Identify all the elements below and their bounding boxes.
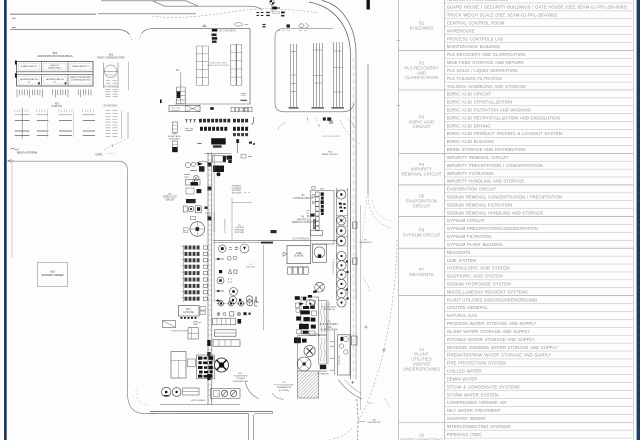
svg-text:PLS TAILINGS FILTRATION: PLS TAILINGS FILTRATION <box>447 76 502 81</box>
svg-text:IMPURITY PRECIPITATION / CONCE: IMPURITY PRECIPITATION / CONCENTRATION <box>447 163 543 168</box>
svg-text:BORIC ACID: BORIC ACID <box>168 135 181 138</box>
svg-text:MINE FEED STORAGE AND RETURN: MINE FEED STORAGE AND RETURN <box>447 60 524 65</box>
tailings filtration strip north <box>319 301 327 336</box>
gypsum rack boxes <box>316 192 320 231</box>
lot exit curves <box>278 123 286 131</box>
arrow west on fence line <box>8 160 15 163</box>
svg-text:GYPSUM CIRCUIT: GYPSUM CIRCUIT <box>293 198 314 200</box>
tank column marks cluster <box>339 203 346 212</box>
svg-text:T: T <box>249 301 251 305</box>
svg-text:CIRCUIT: CIRCUIT <box>165 199 175 201</box>
svg-text:SLAKER: SLAKER <box>294 255 304 258</box>
svg-text:AND: AND <box>327 326 332 329</box>
EV parking stalls upper <box>105 90 118 97</box>
svg-text:IMPURITY FILTRATION: IMPURITY FILTRATION <box>447 171 494 176</box>
road station marks west <box>241 94 247 96</box>
svg-text:CHILLED WATER: CHILLED WATER <box>447 369 482 374</box>
svg-text:ADMINISTRATION: ADMINISTRATION <box>46 78 64 81</box>
construction trailer strip A <box>196 46 198 85</box>
svg-text:IMPURITY HANDLING AND STORAGE: IMPURITY HANDLING AND STORAGE <box>447 179 525 184</box>
svg-text:REAGENTS: REAGENTS <box>447 250 471 255</box>
svg-text:SANITARY SEWER: SANITARY SEWER <box>447 416 486 421</box>
svg-text:B4 CONCRETE: B4 CONCRETE <box>220 30 237 32</box>
svg-text:B20 PLATFORM: B20 PLATFORM <box>17 151 38 155</box>
long building A <box>215 330 237 336</box>
east small marks <box>249 142 252 144</box>
svg-text:PLS SOLID / LIQUID SEPARATION: PLS SOLID / LIQUID SEPARATION <box>447 68 518 73</box>
reagent row 3 <box>219 270 222 273</box>
label B05 block <box>212 29 218 32</box>
future hatched area <box>298 371 319 398</box>
piperack center vertical <box>207 153 209 406</box>
svg-text:WAREHOUSE: WAREHOUSE <box>447 28 475 33</box>
sheet border left navy bar <box>4 0 7 440</box>
svg-text:(FUTURE): (FUTURE) <box>232 193 242 195</box>
main road south segment <box>355 300 357 380</box>
svg-text:BUILDINGS: BUILDINGS <box>410 25 434 30</box>
agitated tank R-2 <box>240 244 249 253</box>
administration building complex B50 <box>17 62 94 87</box>
module hatch row 3 <box>233 133 248 136</box>
road pad B <box>352 258 357 264</box>
power distribution dense cluster <box>198 356 213 377</box>
small equipment row <box>217 313 220 316</box>
filter press label block <box>320 365 326 369</box>
table right border <box>633 0 635 440</box>
svg-text:LS: LS <box>176 69 179 72</box>
substation row <box>213 318 236 325</box>
svg-text:(MESS HALL): (MESS HALL) <box>48 66 61 69</box>
road plant access horizontal <box>175 103 250 105</box>
gas line dashed <box>357 399 358 440</box>
lot entry marks <box>263 24 266 25</box>
flag symbol B <box>272 6 278 9</box>
gypsum small circles <box>312 195 315 198</box>
road bottom horizontal <box>150 410 273 412</box>
svg-text:BORIC ACID CIRCUIT: BORIC ACID CIRCUIT <box>447 92 492 97</box>
parking lot entrance ticks <box>277 30 307 32</box>
svg-text:DISTRIBUTION: DISTRIBUTION <box>233 381 249 383</box>
svg-text:SODIUM REMOVAL FILTRATION: SODIUM REMOVAL FILTRATION <box>447 202 513 207</box>
lime tanks <box>315 282 325 292</box>
impurity striped rod <box>313 219 315 229</box>
road junction right curve <box>142 29 152 34</box>
LS line <box>180 72 182 87</box>
svg-text:BORIC ACID FILTRATION AND WASH: BORIC ACID FILTRATION AND WASHING <box>447 107 532 112</box>
svg-text:1 2: 1 2 <box>215 24 219 26</box>
svg-text:BRINE STORAGE AND DISTRIBUTION: BRINE STORAGE AND DISTRIBUTION <box>447 147 525 152</box>
boric south marks <box>184 175 190 178</box>
parking grid rows <box>15 121 95 136</box>
hvac symbols row <box>218 301 223 306</box>
svg-text:GYPSUM CIRCUIT: GYPSUM CIRCUIT <box>447 218 485 223</box>
svg-text:OILY WATER TREATMENT: OILY WATER TREATMENT <box>447 408 501 413</box>
module hatch row 1 <box>199 119 230 123</box>
svg-text:(FUTURE): (FUTURE) <box>235 232 245 234</box>
svg-text:TAILINGS HANDELING AND STORAGE: TAILINGS HANDELING AND STORAGE <box>447 84 526 89</box>
mcc north box <box>227 156 233 160</box>
module row squares <box>231 107 252 111</box>
transformer bay west <box>163 321 176 328</box>
svg-text:EVAPORATION CIRCUIT: EVAPORATION CIRCUIT <box>447 187 497 192</box>
svg-text:NATURAL GAS: NATURAL GAS <box>447 313 478 318</box>
fence rounded enclosure <box>12 161 156 413</box>
piperack west dark bar <box>177 92 180 99</box>
module rack left ticks <box>182 247 185 298</box>
long building B <box>213 340 240 346</box>
parking strip C <box>334 42 343 107</box>
tall building east annex <box>352 336 358 345</box>
svg-text:COMMUNICATIONS: COMMUNICATIONS <box>71 78 91 81</box>
rack dark segments north <box>207 163 211 167</box>
module rack rows south <box>185 246 200 250</box>
narrow building strip lower <box>172 141 177 152</box>
lime building <box>287 246 311 264</box>
road top ramp parallelogram <box>101 1 262 10</box>
svg-text:ADMINISTRATION BUILDINGS: ADMINISTRATION BUILDINGS <box>37 55 73 58</box>
svg-text:LIME PAD: LIME PAD <box>246 265 256 268</box>
svg-text:COMPRESSED AIR/MINE AIR: COMPRESSED AIR/MINE AIR <box>447 400 507 405</box>
parking stall ticks top <box>15 110 93 113</box>
east contour extension <box>362 196 368 248</box>
lime dosing squares <box>287 266 308 268</box>
road top horizontal upper line <box>10 13 196 15</box>
svg-text:SEPARATION: SEPARATION <box>277 386 291 389</box>
svg-text:PLANT UTILITIES (ABOVE/UNDERGR: PLANT UTILITIES (ABOVE/UNDERGROUND) <box>447 297 538 302</box>
svg-text:UTILITES GENERAL: UTILITES GENERAL <box>447 305 489 310</box>
road curve to main north-south road <box>309 2 351 380</box>
se small marks <box>351 381 354 384</box>
L building <box>171 352 186 379</box>
svg-text:REAGENTS: REAGENTS <box>409 272 433 277</box>
svg-text:HYDROCLORIC ACID SYSTEM: HYDROCLORIC ACID SYSTEM <box>447 266 510 271</box>
svg-text:TRUCK WEIGH SCALE (SEE SEAM-G1: TRUCK WEIGH SCALE (SEE SEAM-G1-PPL-250-0… <box>447 13 558 18</box>
symbol near option <box>329 120 332 123</box>
svg-text:GATE: GATE <box>96 152 103 156</box>
table group boundary lines <box>399 50 634 422</box>
svg-text:DEMIN WATER: DEMIN WATER <box>447 376 478 381</box>
svg-text:LGS PIPERACK: LGS PIPERACK <box>332 258 335 274</box>
road LGS piperack horizontal <box>213 240 336 242</box>
svg-text:OPTION CONCEPT: OPTION CONCEPT <box>322 136 341 138</box>
svg-text:PLS RECOVERY AND CLARIFICATION: PLS RECOVERY AND CLARIFICATION <box>447 52 526 57</box>
reagent row 4 <box>217 277 224 284</box>
reagent area west line <box>213 154 215 302</box>
module hatch row 2b <box>233 127 248 131</box>
svg-text:CLARIFICATION: CLARIFICATION <box>320 328 338 331</box>
impurity dark marks <box>311 214 315 217</box>
reagent row 6 <box>216 300 223 302</box>
clarifier B <box>297 357 311 371</box>
svg-text:BORIC ACID PRODUCT PACKING & L: BORIC ACID PRODUCT PACKING & LOADOUT SYS… <box>447 131 563 136</box>
road east dashed contour <box>368 196 391 228</box>
svg-text:FILTRATION: FILTRATION <box>317 373 329 376</box>
topography dashed contour top <box>152 9 318 18</box>
top survey dash marks <box>257 12 260 13</box>
svg-text:STEAM & CONDENSATE SYSTEMS: STEAM & CONDENSATE SYSTEMS <box>447 384 520 389</box>
tailings filter strip <box>319 335 327 364</box>
svg-text:GUARD FACILITY: GUARD FACILITY <box>20 65 38 68</box>
tank farm column boundary <box>335 188 337 300</box>
parking grid cross aisle <box>21 108 23 139</box>
svg-text:SODIUM REMOVAL HANDLING AND ST: SODIUM REMOVAL HANDLING AND STORAGE <box>447 210 544 215</box>
svg-text:REVERSE OSMOSIS WATER STORAGE: REVERSE OSMOSIS WATER STORAGE AND SUPPLY <box>447 345 558 350</box>
EV parking stalls lower <box>106 111 118 137</box>
svg-text:BRINE CIRCUIT: BRINE CIRCUIT <box>322 154 339 156</box>
road left horizontal lower line <box>10 30 129 35</box>
clarifier boundary <box>298 336 320 371</box>
svg-text:MAINTENANCE BUILDING: MAINTENANCE BUILDING <box>447 44 501 49</box>
svg-text:E-HOUSE: E-HOUSE <box>183 312 194 314</box>
svg-text:1.1: 1.1 <box>217 394 221 396</box>
svg-text:GYPSUM PLANT BUILDING: GYPSUM PLANT BUILDING <box>447 242 504 247</box>
svg-text:GUARD HOUSE / SECURITY BUILDIN: GUARD HOUSE / SECURITY BUILDINGS / GATE … <box>447 5 628 10</box>
svg-text:INTERCONNECTING SYSTEMS: INTERCONNECTING SYSTEMS <box>447 424 511 429</box>
svg-text:PROCESS CONTROLS LAB: PROCESS CONTROLS LAB <box>447 36 504 41</box>
reagent row 5 <box>216 290 225 292</box>
agitated tank R-1 <box>219 245 226 252</box>
svg-text:R: R <box>318 125 320 128</box>
transformer dark unit <box>215 358 229 372</box>
north module containing box <box>301 297 319 334</box>
svg-text:FILTRATION: FILTRATION <box>323 308 335 311</box>
road survey marks <box>203 25 207 27</box>
svg-text:SULPHURIC ACID SYSTEM: SULPHURIC ACID SYSTEM <box>447 274 503 279</box>
table item texts <box>447 0 628 437</box>
svg-text:PLANT WIDE: PLANT WIDE <box>234 375 248 378</box>
svg-text:BORIC ACID CRYSTALLIZATION: BORIC ACID CRYSTALLIZATION <box>447 100 513 105</box>
boric module box <box>205 152 232 154</box>
rack dark segments <box>207 340 210 346</box>
main parking lot boundary <box>275 29 333 104</box>
sheet border right navy bar <box>637 0 640 440</box>
topography dashed contour mid right <box>340 120 360 144</box>
svg-text:MISCELLANEOUS REAGENT SYSTEMS: MISCELLANEOUS REAGENT SYSTEMS <box>447 289 528 294</box>
svg-text:B08: B08 <box>109 55 114 57</box>
road edge ticks top-left <box>12 17 16 19</box>
road center horizontal <box>151 28 250 30</box>
svg-text:REAGENTS: REAGENTS <box>359 241 372 244</box>
lgs dark segment <box>261 242 273 244</box>
svg-text:GAS METER: GAS METER <box>368 421 381 424</box>
svg-text:(101): (101) <box>368 402 373 404</box>
svg-text:TRAILERS (FUTURE): TRAILERS (FUTURE) <box>207 64 229 67</box>
tall building east <box>338 335 350 375</box>
svg-text:P3A: P3A <box>172 133 177 136</box>
road center dashes <box>352 58 354 378</box>
svg-text:(FUTURE): (FUTURE) <box>279 390 290 392</box>
road pad A <box>352 222 357 228</box>
gypsum area boundary box <box>311 191 335 245</box>
table column divider <box>444 0 446 440</box>
parking stalls below admin <box>17 90 91 98</box>
module marks row 2 left <box>186 129 194 131</box>
svg-text:LGS PIPERACK: LGS PIPERACK <box>224 218 227 233</box>
svg-text:ADMINISTRATION: ADMINISTRATION <box>20 78 38 81</box>
svg-text:ADMINISTRATION BUILDINGS: ADMINISTRATION BUILDINGS <box>447 0 508 2</box>
svg-text:FIREWATER/RAW WATER STORAGE AN: FIREWATER/RAW WATER STORAGE AND SUPPLY <box>447 353 551 358</box>
svg-text:A: A <box>28 81 30 84</box>
svg-text:FIRE PROTECTION SYSTEM: FIRE PROTECTION SYSTEM <box>447 361 507 366</box>
table row lines <box>445 3 634 438</box>
gypsum left marks <box>307 211 311 221</box>
svg-text:REMOVAL CIRCUIT: REMOVAL CIRCUIT <box>401 172 441 177</box>
construction trailer strip B <box>230 45 232 86</box>
svg-text:TRANSFORMERS: TRANSFORMERS <box>171 329 189 332</box>
conveyor vertical <box>237 139 239 153</box>
boric black cluster south <box>213 166 224 173</box>
power area baseline <box>160 404 240 406</box>
svg-text:EV PARKING: EV PARKING <box>104 85 118 88</box>
gate dashed curve <box>104 139 128 150</box>
survey tick north <box>367 0 370 10</box>
pipe sweep <box>196 161 210 164</box>
svg-text:DINING FACILITY: DINING FACILITY <box>72 65 89 68</box>
svg-text:GYPSUM PRECIPITATION/CONCENTRA: GYPSUM PRECIPITATION/CONCENTRATION <box>447 226 538 231</box>
svg-text:EV PARKING: EV PARKING <box>104 104 118 107</box>
plant east boundary line <box>333 330 335 375</box>
svg-text:CONSTRUCTION: CONSTRUCTION <box>209 62 227 64</box>
lot south marks <box>307 118 316 121</box>
svg-text:GLAND WATER STORAGE AND SUPPLY: GLAND WATER STORAGE AND SUPPLY <box>447 329 530 334</box>
small marks near tank <box>206 213 212 216</box>
table border ticks <box>397 40 401 42</box>
svg-text:CENTRAL CONTROL ROOM: CENTRAL CONTROL ROOM <box>447 20 505 25</box>
svg-text:SANITARY SEWER: SANITARY SEWER <box>41 274 63 277</box>
svg-text:PROCESS WATER STORAGE AND SUPP: PROCESS WATER STORAGE AND SUPPLY <box>447 321 537 326</box>
aux box <box>188 328 198 339</box>
table left border <box>398 0 400 440</box>
svg-text:81: 81 <box>184 231 187 233</box>
table group labels <box>400 20 443 440</box>
svg-text:GYPSUM CIRCUIT: GYPSUM CIRCUIT <box>402 232 440 237</box>
small tanks row <box>185 162 190 167</box>
svg-text:LIME SYSTEM: LIME SYSTEM <box>447 258 477 263</box>
svg-text:CIRCUIT: CIRCUIT <box>413 124 431 129</box>
svg-text:BORIC ACID DRYING: BORIC ACID DRYING <box>447 123 491 128</box>
svg-text:CIRCUIT: CIRCUIT <box>413 203 431 208</box>
laydown support Ts <box>185 120 196 123</box>
lime silo structure <box>313 244 327 262</box>
svg-text:REMOVAL CIRCUIT: REMOVAL CIRCUIT <box>292 221 314 224</box>
svg-text:BORIC ACID: BORIC ACID <box>163 196 177 199</box>
south road corner arcs <box>339 380 363 400</box>
tank farm tanks south <box>337 251 346 260</box>
east road extra line <box>360 205 362 410</box>
road vertical at plant west <box>249 29 251 105</box>
road bottom vertical <box>248 414 250 440</box>
truck scale X-box <box>169 105 200 111</box>
gypsum rack dark stack <box>321 192 324 215</box>
svg-text:BORIC ACID RECRYSTALLIZATION A: BORIC ACID RECRYSTALLIZATION AND DISSOLU… <box>447 115 560 120</box>
diesel tanks west <box>161 387 171 397</box>
svg-text:2: 2 <box>242 124 244 127</box>
boric module black cluster <box>211 138 226 144</box>
svg-text:UNDERGROUND): UNDERGROUND) <box>403 366 440 371</box>
road east shoulder line <box>367 64 369 195</box>
svg-text:PARKING: PARKING <box>52 105 63 108</box>
svg-text:P2 FILTER: P2 FILTER <box>339 355 341 365</box>
clarifier A <box>304 345 315 356</box>
MCC E-house <box>179 306 200 317</box>
svg-text:BUILDING: BUILDING <box>169 139 180 141</box>
module rows west boundary <box>182 245 184 302</box>
south-east dashed road curve <box>356 240 397 425</box>
svg-text:STORM WATER SYSTEM: STORM WATER SYSTEM <box>447 392 499 397</box>
truck scale marks <box>210 107 214 110</box>
flag symbol A <box>270 0 275 5</box>
future area boundary <box>231 198 233 241</box>
svg-text:SODIUM REMOVAL CONCENTRATION /: SODIUM REMOVAL CONCENTRATION / PRECIPITA… <box>447 194 562 199</box>
svg-text:BORIC ACID BUILDING: BORIC ACID BUILDING <box>447 139 495 144</box>
reagent row 2 <box>216 258 225 260</box>
svg-text:B: B <box>54 82 56 84</box>
module hatch row 2 <box>200 127 227 131</box>
generator slashed circles <box>211 389 241 399</box>
narrow building strip upper <box>172 122 177 133</box>
parking strip B <box>314 43 323 107</box>
module hatch row 1b <box>233 119 248 123</box>
svg-text:GYPSUM FILTRATION: GYPSUM FILTRATION <box>447 234 492 239</box>
svg-text:IMPURITY REMOVAL CIRCUIT: IMPURITY REMOVAL CIRCUIT <box>447 155 509 160</box>
north black modules <box>294 291 317 344</box>
sanitary sewer box U16 <box>38 263 68 287</box>
svg-text:SODIUM HYDROXIDE SYSTEM: SODIUM HYDROXIDE SYSTEM <box>447 282 511 287</box>
svg-text:CLARIFICATION: CLARIFICATION <box>405 75 438 80</box>
tank farm tanks north <box>337 190 346 199</box>
impurity box <box>311 230 323 235</box>
svg-text:B43: B43 <box>320 188 325 190</box>
large tank T-110 <box>190 222 205 237</box>
parking strip A <box>291 44 297 107</box>
svg-text:POTABLE WATER STORAGE AND SUPP: POTABLE WATER STORAGE AND SUPPLY <box>447 337 535 342</box>
svg-text:PIPERACK (TBD): PIPERACK (TBD) <box>447 432 482 437</box>
svg-text:SWITCHYARD: SWITCHYARD <box>191 399 206 402</box>
svg-text:2: 2 <box>247 127 249 129</box>
svg-text:LGS PIPERACK: LGS PIPERACK <box>292 237 310 240</box>
svg-text:RADIO COMMUNICATION: RADIO COMMUNICATION <box>97 56 125 59</box>
piperack west cells <box>175 87 177 104</box>
boric south extra marks <box>191 182 199 186</box>
benchmark tick <box>160 100 162 104</box>
